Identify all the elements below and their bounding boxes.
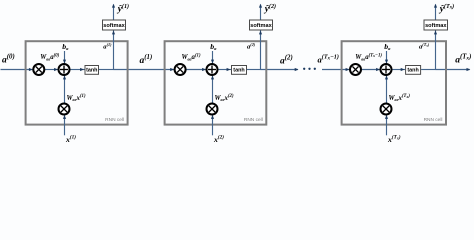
svg-text:tanh: tanh [407, 68, 418, 74]
svg-text:softmax: softmax [425, 23, 447, 29]
svg-text:tanh: tanh [86, 68, 97, 74]
svg-text:softmax: softmax [103, 23, 125, 29]
svg-text:RNN cell: RNN cell [244, 117, 263, 123]
svg-text:RNN cell: RNN cell [424, 117, 443, 123]
svg-text:softmax: softmax [250, 23, 272, 29]
svg-text:tanh: tanh [233, 68, 244, 74]
svg-text:RNN cell: RNN cell [105, 117, 124, 123]
